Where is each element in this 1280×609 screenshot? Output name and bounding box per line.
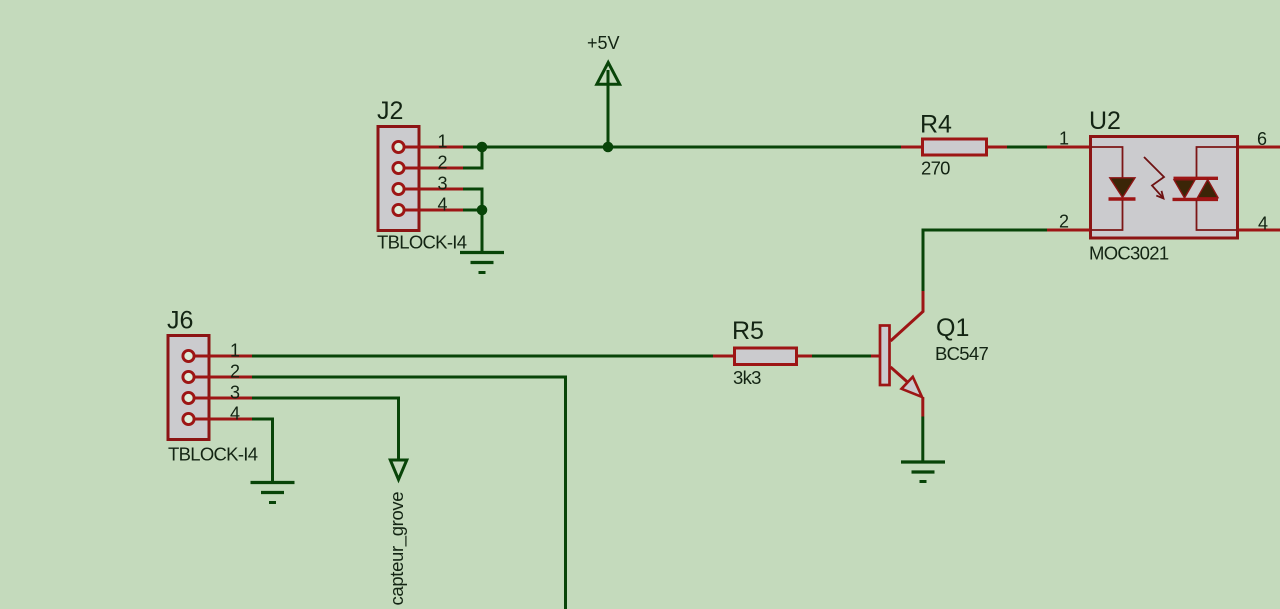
svg-text:3: 3 [230,383,240,403]
svg-text:2: 2 [230,362,240,382]
junction +5V node [603,142,614,153]
svg-text:U2: U2 [1089,107,1121,135]
wire J2.3 down to node B [463,189,482,210]
svg-text:TBLOCK-I4: TBLOCK-I4 [377,232,467,253]
junction node B [477,205,488,216]
pin stub J2.1 [404,146,463,149]
ground (J6) [251,483,295,503]
svg-text:1: 1 [230,341,240,361]
pin stub U2.6 [1239,146,1280,149]
pin stub J2.4 [404,209,463,212]
svg-text:+5V: +5V [587,33,620,53]
wire U2.2 to Q1 collector [923,230,1047,292]
transistor Q1 emitter lead [891,367,914,387]
svg-text:R5: R5 [732,317,764,345]
optocoupler U2 body [1091,137,1238,239]
svg-text:R4: R4 [920,111,952,139]
svg-text:TBLOCK-I4: TBLOCK-I4 [168,444,258,465]
pin stub J6.4 [194,418,252,421]
svg-text:1: 1 [1059,129,1069,149]
svg-text:2: 2 [1059,212,1069,232]
U2 triac top trace [1197,147,1238,178]
transistor Q1 emitter arrow [902,377,923,397]
pin stub U2.4 [1239,229,1280,232]
ground (Q1) [901,462,945,482]
svg-text:capteur_grove: capteur_grove [386,492,408,606]
svg-text:3: 3 [438,174,448,194]
wire node B to ground [481,210,484,252]
U2 triac bottom trace [1197,200,1238,230]
svg-text:Q1: Q1 [936,314,969,342]
resistor R4 [901,139,1007,155]
U2 light arrow [1144,157,1164,199]
pin stub J6.3 [194,397,252,400]
U2 triac right triangle [1198,180,1219,198]
pin stub J6.1 [194,355,252,358]
power +5V terminal [597,63,620,148]
U2 LED anode trace [1091,147,1123,179]
svg-text:4: 4 [230,404,240,424]
svg-text:4: 4 [1258,214,1268,234]
U2 LED triangle [1110,178,1135,198]
svg-text:J6: J6 [167,307,193,335]
wire +5V rail [482,146,901,149]
pin stub J2.2 [404,167,463,170]
junction node A [477,142,488,153]
pin stub U2.1 [1047,146,1090,149]
terminal arrow capteur_grove [390,460,407,480]
svg-text:3k3: 3k3 [733,367,761,388]
svg-text:BC547: BC547 [935,343,988,364]
pin stub J6.2 [194,376,252,379]
U2 triac bottom bar [1173,198,1219,201]
pin stub J2.3 [404,188,463,191]
wire J6.2 down [252,377,566,609]
wire J2.4 to node B [463,209,483,212]
wire R4 to U2 [1007,146,1047,149]
wire J6.4 to ground [252,419,273,481]
svg-text:1: 1 [438,132,448,152]
svg-text:270: 270 [921,158,950,179]
U2 triac left triangle [1174,180,1195,198]
ground (J2) [460,253,504,273]
wire J6.3 to terminal [252,398,399,459]
wire R5 to Q1 [812,355,871,358]
connector J2 [378,127,419,231]
transistor Q1 base bar [880,326,890,386]
wire J2.1 to node A [463,146,483,149]
pin stub Q1 base [871,355,880,358]
wire J2.2 up to node A [463,147,482,168]
svg-text:MOC3021: MOC3021 [1089,243,1169,264]
connector J6 [168,336,209,440]
U2 triac top bar [1174,177,1219,180]
U2 LED cathode trace [1091,200,1123,230]
wire J6.1 to R5 [252,355,713,358]
transistor Q1 emitter stub [921,397,924,417]
pin stub U2.2 [1047,229,1090,232]
U2 LED cathode bar [1109,197,1136,200]
resistor R5 [713,348,812,365]
transistor Q1 collector lead [891,291,924,341]
svg-text:J2: J2 [377,97,403,125]
wire Q1 emitter to ground [921,417,924,462]
svg-text:4: 4 [438,195,448,215]
svg-text:6: 6 [1257,129,1267,149]
svg-text:2: 2 [438,153,448,173]
